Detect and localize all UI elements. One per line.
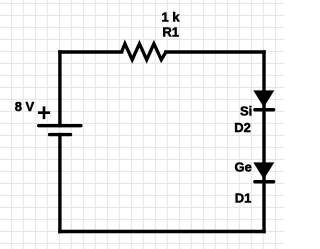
svg-text:Si: Si (240, 104, 252, 119)
wire right lower segment (262, 182, 265, 232)
battery plus sign (38, 106, 50, 119)
diode D2 triangle (anode) (253, 90, 274, 107)
wire bottom segment (60, 230, 264, 233)
battery V1 negative plate (short) (50, 133, 71, 136)
svg-text:D1: D1 (235, 190, 252, 205)
svg-text:1 k: 1 k (162, 9, 181, 24)
diode D2 cathode bar (255, 108, 274, 111)
wire left lower segment (58, 135, 61, 232)
resistor R1 (122, 44, 166, 60)
svg-text:D2: D2 (234, 120, 251, 135)
svg-text:8 V: 8 V (15, 99, 35, 114)
svg-text:Ge: Ge (235, 160, 252, 175)
diode D1 cathode bar (255, 180, 274, 183)
diode D1 triangle (anode) (253, 162, 274, 179)
wire right upper segment (262, 52, 265, 110)
wire top-left segment (60, 50, 122, 53)
wire left upper segment (58, 52, 61, 126)
battery V1 positive plate (long) (39, 124, 81, 127)
svg-text:R1: R1 (162, 24, 179, 39)
wire top-right segment (166, 50, 264, 53)
wire right middle segment (262, 110, 265, 182)
